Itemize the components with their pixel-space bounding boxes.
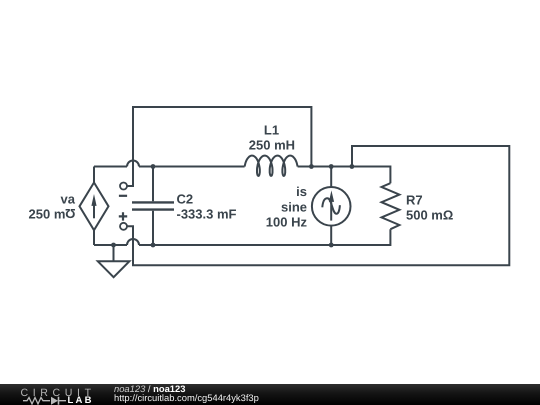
svg-text:L1: L1 (264, 122, 279, 137)
svg-text:Ω: Ω (65, 206, 75, 221)
svg-text:R7: R7 (406, 192, 423, 207)
svg-text:100 Hz: 100 Hz (266, 214, 308, 229)
svg-text:C2: C2 (177, 191, 194, 206)
svg-text:250 m: 250 m (29, 206, 66, 221)
svg-text:va: va (61, 191, 76, 206)
svg-text:sine: sine (281, 199, 307, 214)
svg-text:500 mΩ: 500 mΩ (406, 208, 453, 223)
svg-text:-333.3 mF: -333.3 mF (177, 206, 237, 221)
svg-text:is: is (296, 184, 307, 199)
svg-text:250 mH: 250 mH (249, 138, 295, 153)
